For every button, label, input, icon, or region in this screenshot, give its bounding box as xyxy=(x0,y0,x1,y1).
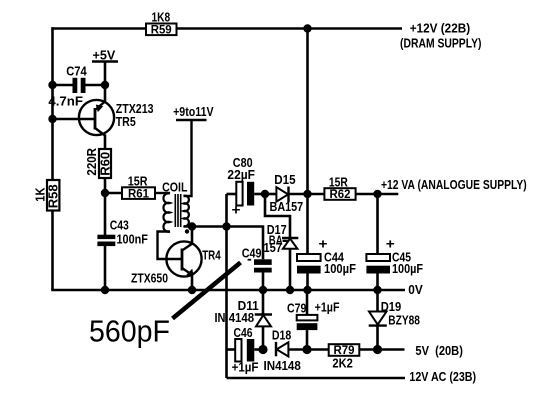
node C44 0V xyxy=(303,286,311,294)
svg-text:C79: C79 xyxy=(287,302,306,316)
svg-text:BA157: BA157 xyxy=(270,200,304,214)
wire R60 to node xyxy=(104,178,107,193)
node D15 +12V junction xyxy=(303,190,311,198)
svg-text:R79: R79 xyxy=(334,345,355,357)
svg-text:+: + xyxy=(319,236,328,251)
svg-text:+: + xyxy=(232,203,241,218)
resistor R79 xyxy=(329,344,360,357)
wire coil secondary bottom to node xyxy=(184,225,193,227)
node C43 bottom xyxy=(101,286,109,294)
node TR4 collector coil xyxy=(188,222,196,230)
node C74 right xyxy=(101,81,109,89)
svg-text:+: + xyxy=(386,236,395,251)
capacitor C46 xyxy=(227,339,264,362)
svg-text:+1µF: +1µF xyxy=(315,300,340,314)
svg-text:5V (20B): 5V (20B) xyxy=(415,344,463,358)
svg-text:+12 VA (ANALOGUE SUPPLY): +12 VA (ANALOGUE SUPPLY) xyxy=(381,178,527,192)
wire left rail upper xyxy=(51,27,54,180)
coil core xyxy=(175,194,180,227)
wire C80 branch vertical xyxy=(225,194,228,378)
wire +12V drop to D15 node xyxy=(306,29,309,195)
wire 5V stub xyxy=(378,348,405,351)
node C45 0V xyxy=(373,286,381,294)
wire 12V AC rail xyxy=(227,377,406,380)
wire coil primary bottom to TR4 base xyxy=(158,232,183,260)
capacitor C45 xyxy=(366,254,390,290)
svg-text:R60: R60 xyxy=(98,152,112,176)
diode D19 zener xyxy=(369,290,387,350)
svg-text:157: 157 xyxy=(264,241,283,255)
wire node to R62 xyxy=(308,193,325,196)
resistor R59 xyxy=(146,24,177,37)
svg-text:100µF: 100µF xyxy=(392,262,423,276)
svg-text:15R: 15R xyxy=(329,176,348,190)
svg-text:0V: 0V xyxy=(408,283,423,297)
node top rail junction xyxy=(303,24,311,32)
capacitor C80 xyxy=(227,182,266,206)
transistor TR5 xyxy=(53,100,115,136)
wire R61 to coil xyxy=(155,192,170,194)
diode D11 xyxy=(255,290,272,350)
svg-text:+1µF: +1µF xyxy=(232,361,259,375)
node R60 bottom xyxy=(101,189,109,197)
svg-text:100nF: 100nF xyxy=(117,233,149,247)
node TR5 base junction xyxy=(48,115,56,123)
wire node to R61 xyxy=(105,192,122,195)
wire TR4 emitter down xyxy=(191,275,194,290)
svg-text:D15: D15 xyxy=(274,173,295,187)
svg-text:TR5: TR5 xyxy=(116,115,136,129)
capacitor C74 xyxy=(53,78,106,93)
wire coil bus to C49 xyxy=(192,227,263,260)
svg-text:C49: C49 xyxy=(242,247,262,261)
wire +9to11V to coil secondary top xyxy=(184,120,192,196)
wire +5V to TR5 emitter xyxy=(104,62,107,104)
wire +12VA stub xyxy=(378,193,399,196)
wire 0V bus xyxy=(51,289,405,292)
svg-text:C43: C43 xyxy=(110,219,129,233)
node C79 D18 R79 xyxy=(302,345,311,354)
node D11 D18 C46 xyxy=(258,345,267,354)
capacitor C79 xyxy=(297,290,318,350)
node 5V xyxy=(373,345,382,354)
node +12VA xyxy=(373,190,381,198)
node D17 0V xyxy=(286,286,294,294)
resistor R60 xyxy=(98,149,112,178)
coil primary winding xyxy=(163,193,170,232)
diode D15 xyxy=(265,187,308,203)
svg-text:D18: D18 xyxy=(272,328,291,342)
transistor TR4 xyxy=(166,241,201,276)
svg-text:(DRAM SUPPLY): (DRAM SUPPLY) xyxy=(400,36,482,50)
node C80 D15 xyxy=(261,190,269,198)
svg-text:R59: R59 xyxy=(151,25,172,37)
svg-text:BZY88: BZY88 xyxy=(388,314,420,328)
svg-text:100µF: 100µF xyxy=(324,262,356,276)
svg-text:R62: R62 xyxy=(330,189,351,201)
diode D17 xyxy=(282,238,298,290)
svg-text:4.7nF: 4.7nF xyxy=(48,95,83,109)
node C74 left xyxy=(48,81,56,89)
node C49 0V xyxy=(259,286,267,294)
svg-text:ZTX650: ZTX650 xyxy=(131,272,168,286)
svg-text:2K2: 2K2 xyxy=(332,357,352,371)
svg-text:IN: IN xyxy=(215,311,226,325)
svg-text:+12V (22B): +12V (22B) xyxy=(410,22,471,36)
wire top +12V rail xyxy=(51,27,402,30)
wire node to R79 xyxy=(307,348,329,351)
resistor R58 xyxy=(47,180,61,211)
svg-text:15R: 15R xyxy=(128,175,148,189)
resistor R62 xyxy=(324,188,355,201)
svg-text:560pF: 560pF xyxy=(89,314,170,348)
svg-text:12V AC (23B): 12V AC (23B) xyxy=(409,370,476,384)
wire D17 link xyxy=(265,194,290,238)
svg-text:R61: R61 xyxy=(128,188,150,200)
svg-text:1K8: 1K8 xyxy=(152,11,171,25)
capacitor C43 xyxy=(97,193,115,290)
capacitor C44 xyxy=(297,194,321,290)
svg-text:220R: 220R xyxy=(85,148,99,176)
wire +12VA to C45 xyxy=(376,194,379,254)
svg-text:C46: C46 xyxy=(234,326,253,340)
wire R62 to +12VA node xyxy=(356,193,378,196)
svg-text:ZTX213: ZTX213 xyxy=(116,102,154,116)
svg-text:22µF: 22µF xyxy=(227,168,255,182)
capacitor C49 xyxy=(254,259,272,290)
svg-text:C74: C74 xyxy=(66,65,87,79)
diode D18 xyxy=(276,342,307,357)
svg-text:+9to11V: +9to11V xyxy=(173,105,214,119)
svg-text:IN4148: IN4148 xyxy=(264,359,301,373)
svg-text:R58: R58 xyxy=(47,184,61,208)
node TR4 emitter 0V xyxy=(188,286,196,294)
wire R79 to 5V node xyxy=(359,348,377,351)
wire TR4 collector up xyxy=(191,227,194,244)
coil phase dot xyxy=(185,229,189,233)
resistor R61 xyxy=(122,187,155,200)
svg-text:TR4: TR4 xyxy=(202,248,221,262)
svg-text:4148: 4148 xyxy=(229,311,255,325)
callout pointer line xyxy=(173,263,241,319)
svg-text:1K: 1K xyxy=(33,188,47,202)
node coil bus C80 junction xyxy=(222,222,230,230)
svg-text:D19: D19 xyxy=(381,300,402,314)
polarity minus C49 xyxy=(248,259,252,261)
coil secondary winding xyxy=(184,196,189,226)
wire left rail lower xyxy=(51,210,54,290)
power +9to11V xyxy=(173,105,214,120)
power +5V xyxy=(92,49,118,63)
wire TR5 collector to R60 xyxy=(104,135,107,151)
